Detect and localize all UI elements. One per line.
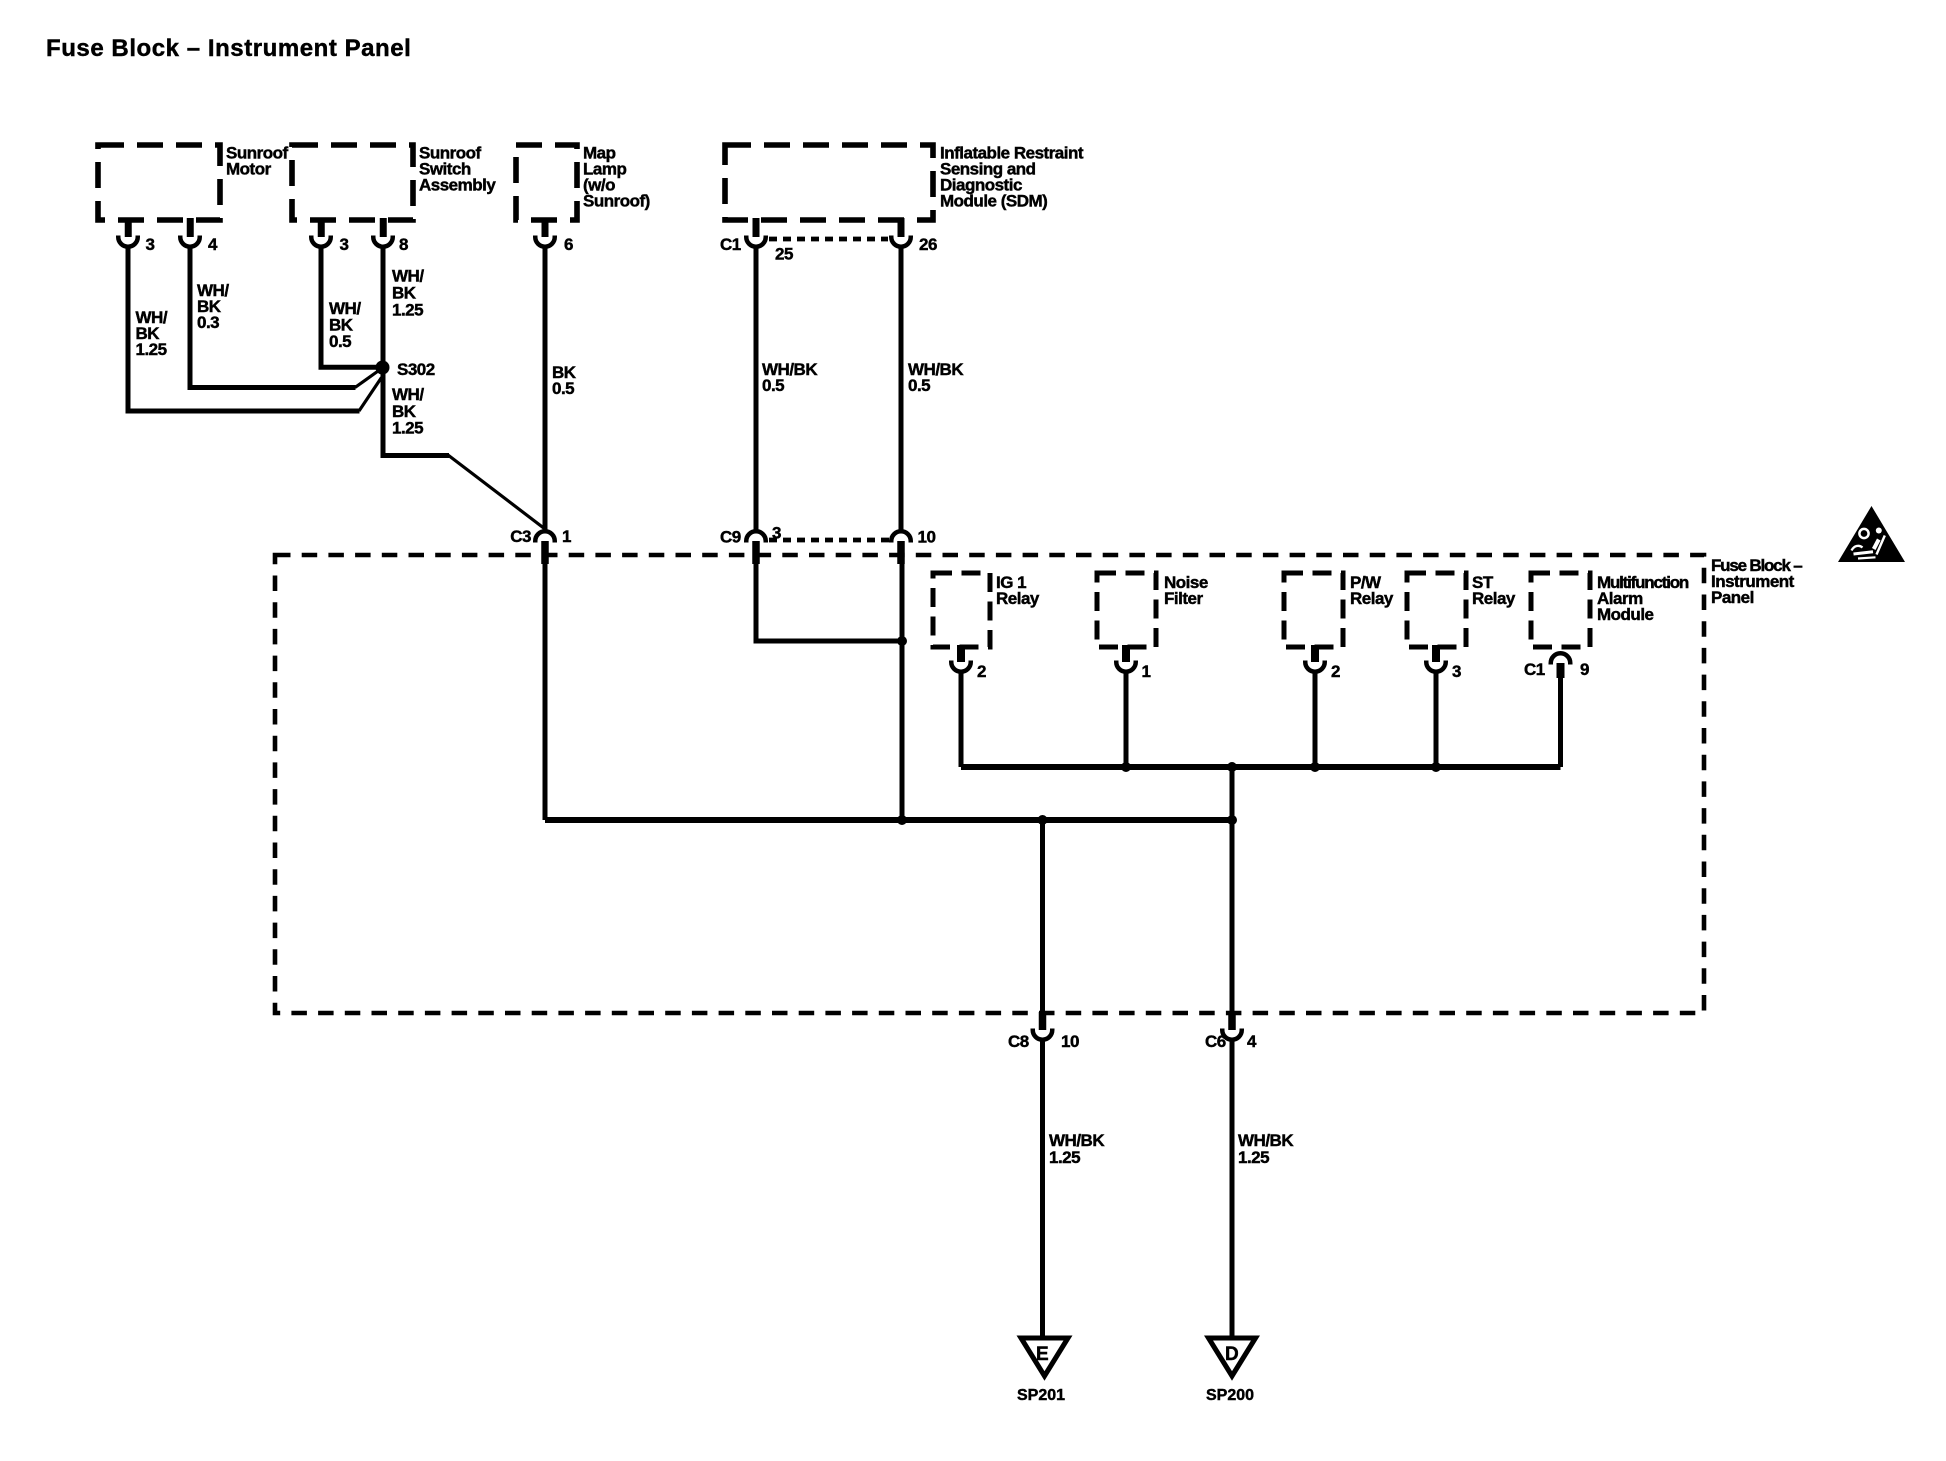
svg-text:Relay: Relay — [1472, 589, 1516, 608]
svg-text:E: E — [1036, 1344, 1049, 1365]
svg-text:C8: C8 — [1008, 1032, 1029, 1051]
junction dot — [1227, 815, 1237, 825]
svg-text:4: 4 — [1247, 1032, 1257, 1051]
connector C9 dashed link — [769, 538, 889, 543]
svg-text:1.25: 1.25 — [392, 419, 423, 438]
svg-text:C1: C1 — [1524, 660, 1545, 679]
pin 8 Sunroof Switch Assembly — [373, 218, 408, 254]
component IG 1 Relay — [933, 573, 1040, 647]
pin 6 Map Lamp — [535, 218, 573, 254]
svg-text:1: 1 — [1142, 662, 1151, 681]
wire bus to connector C6 — [1230, 767, 1235, 1014]
component Sunroof Switch Assembly — [292, 144, 496, 221]
svg-text:1.25: 1.25 — [1049, 1148, 1080, 1167]
junction dot — [897, 636, 907, 646]
wire WH/BK 1.25 from Sunroof Switch Assembly pin 8 through S302 to connector C3 — [383, 249, 545, 530]
svg-text:3: 3 — [146, 235, 155, 254]
wire from C9 pin 3 to node — [756, 541, 902, 641]
connector C1 pin 9 Multifunction Alarm Module — [1524, 653, 1589, 679]
connector C1 pin 25 SDM — [720, 218, 793, 264]
connector C1 dashed link — [769, 237, 888, 242]
junction dot — [897, 815, 907, 825]
svg-text:Fuse Block – Instrument Panel: Fuse Block – Instrument Panel — [46, 35, 411, 62]
svg-text:Filter: Filter — [1164, 589, 1203, 608]
svg-text:26: 26 — [919, 235, 937, 254]
junction dot — [1121, 762, 1131, 772]
svg-text:C1: C1 — [720, 235, 741, 254]
svg-text:0.5: 0.5 — [329, 332, 351, 351]
svg-text:C3: C3 — [510, 527, 531, 546]
svg-text:Module: Module — [1597, 605, 1654, 624]
svg-text:0.5: 0.5 — [762, 376, 784, 395]
pin 2 IG 1 Relay — [951, 645, 986, 681]
wire Multifunction Alarm Module pin 9 to bus — [1558, 676, 1563, 767]
svg-text:0.5: 0.5 — [908, 376, 930, 395]
connector C1 pin 26 SDM — [891, 218, 937, 254]
svg-text:D: D — [1225, 1344, 1239, 1365]
svg-text:1.25: 1.25 — [392, 301, 423, 320]
component P/W Relay — [1284, 573, 1394, 647]
ground SP201 (E) — [1017, 1338, 1068, 1404]
svg-text:Assembly: Assembly — [419, 176, 496, 195]
wire WH/BK 1.25 from Sunroof Motor pin 3 to splice S302 — [128, 249, 382, 412]
component Sunroof Motor — [98, 144, 288, 221]
splice S302 — [376, 360, 435, 379]
component Noise Filter — [1097, 573, 1208, 647]
wire Noise Filter pin 1 to bus — [1124, 673, 1129, 767]
wire from C3 pin 1 down — [543, 541, 548, 820]
svg-text:Motor: Motor — [226, 160, 272, 179]
junction dot — [1310, 762, 1320, 772]
wire WH/BK 0.5 from Sunroof Switch Assembly pin 3 to splice S302 — [321, 249, 380, 368]
pin 3 Sunroof Switch Assembly — [311, 218, 348, 254]
junction dot — [1227, 762, 1237, 772]
component ST Relay — [1407, 573, 1516, 647]
svg-text:Relay: Relay — [996, 589, 1040, 608]
connector C3 pin 1 — [510, 527, 571, 564]
svg-text:1.25: 1.25 — [1238, 1148, 1269, 1167]
svg-text:1.25: 1.25 — [136, 340, 167, 359]
svg-text:Panel: Panel — [1711, 588, 1754, 607]
connector C9 pin 3 — [720, 524, 781, 565]
component Map Lamp (w/o Sunroof) — [516, 144, 650, 221]
component Inflatable Restraint Sensing and Diagnostic Module (SDM) — [725, 144, 1084, 221]
svg-text:10: 10 — [1061, 1032, 1079, 1051]
junction dot — [1431, 762, 1441, 772]
pin 3 Sunroof Motor — [118, 218, 154, 254]
pin 1 Noise Filter — [1116, 645, 1150, 681]
net lower horizontal — [545, 817, 1232, 823]
svg-text:3: 3 — [1452, 662, 1461, 681]
component Multifunction Alarm Module — [1531, 573, 1689, 647]
svg-text:C6: C6 — [1205, 1032, 1226, 1051]
svg-text:C9: C9 — [720, 528, 741, 547]
wire P/W Relay pin 2 to bus — [1313, 673, 1318, 767]
airbag warning icon — [1838, 506, 1905, 562]
svg-text:1: 1 — [562, 527, 571, 546]
svg-text:SP200: SP200 — [1206, 1387, 1254, 1404]
wire WH/BK 0.3 from Sunroof Motor pin 4 to splice S302 — [190, 249, 380, 388]
component Fuse Block - Instrument Panel (dashed outline) — [275, 555, 1802, 1013]
wire WH/BK 0.5 from SDM pin 25 to connector C9 — [756, 249, 818, 532]
wire ST Relay pin 3 to bus — [1434, 673, 1439, 767]
svg-text:3: 3 — [340, 235, 349, 254]
svg-text:Module (SDM): Module (SDM) — [940, 192, 1047, 211]
svg-text:8: 8 — [399, 235, 408, 254]
connector C6 pin 4 — [1205, 1012, 1257, 1051]
svg-text:SP201: SP201 — [1017, 1387, 1065, 1404]
pin 4 Sunroof Motor — [180, 218, 218, 254]
ground SP200 (D) — [1206, 1338, 1256, 1404]
connector C8 pin 10 — [1008, 1012, 1079, 1051]
svg-text:Relay: Relay — [1350, 589, 1394, 608]
svg-text:S302: S302 — [397, 360, 435, 379]
net bus horizontal — [961, 764, 1561, 770]
pin 3 ST Relay — [1426, 645, 1461, 681]
connector pin 10 — [891, 528, 935, 565]
svg-text:10: 10 — [918, 528, 936, 547]
wire net to connector C8 — [1040, 820, 1045, 1014]
svg-text:Sunroof): Sunroof) — [583, 192, 650, 211]
wire WH/BK 1.25 from C6 to ground SP200 — [1232, 1041, 1294, 1338]
svg-text:2: 2 — [977, 662, 986, 681]
svg-text:4: 4 — [208, 235, 218, 254]
wire WH/BK 0.5 from SDM pin 26 to fuse block pin 10 — [901, 249, 964, 532]
svg-text:25: 25 — [775, 245, 793, 264]
junction dot — [1038, 815, 1048, 825]
svg-text:6: 6 — [564, 235, 573, 254]
svg-text:9: 9 — [1580, 660, 1589, 679]
svg-text:2: 2 — [1331, 662, 1340, 681]
svg-text:0.5: 0.5 — [552, 379, 574, 398]
wire IG 1 Relay pin 2 to bus — [959, 673, 964, 767]
wire WH/BK 1.25 from C8 to ground SP201 — [1043, 1041, 1106, 1338]
svg-text:0.3: 0.3 — [197, 313, 219, 332]
pin 2 P/W Relay — [1305, 645, 1340, 681]
wire from pin 10 down — [900, 541, 905, 820]
wire BK 0.5 from Map Lamp pin 6 to connector C3 — [545, 249, 577, 532]
